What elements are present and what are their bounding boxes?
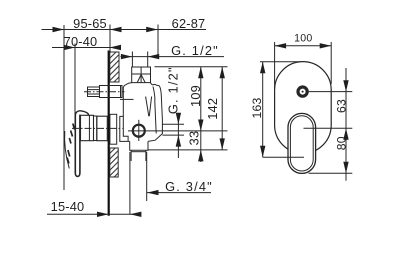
extension line wall x110 xyxy=(109,25,111,53)
body casting inner line xyxy=(153,87,156,134)
svg-text:95-65: 95-65 xyxy=(73,16,107,31)
lever swing phantom arc xyxy=(65,131,70,169)
wall slab behind xyxy=(110,114,117,144)
centerline handle xyxy=(72,127,123,129)
lever handle bar xyxy=(75,115,80,177)
bottom port tube xyxy=(131,150,146,161)
top port G1/2 xyxy=(132,67,151,83)
svg-text:15-40: 15-40 xyxy=(51,199,85,214)
label G 1/2 vertical line xyxy=(177,115,179,159)
dimension 63 arrows xyxy=(343,80,348,140)
dimension 163 arrows xyxy=(260,62,265,157)
dimension 62-87 right arrow xyxy=(146,27,158,32)
escutcheon plate front xyxy=(275,62,332,154)
dimension 15-40 line xyxy=(47,213,140,215)
label G 1/2 top leader xyxy=(121,56,225,58)
dimension 63-80 line xyxy=(345,68,347,181)
dimension 15-40 arrows xyxy=(97,212,141,217)
extension line y149.8 xyxy=(148,149,228,151)
svg-text:100: 100 xyxy=(294,33,312,45)
dimension 95-65 arrows xyxy=(53,27,122,32)
body ledge line xyxy=(120,98,134,100)
top port seat V xyxy=(137,75,145,83)
svg-text:62-87: 62-87 xyxy=(172,16,206,31)
handle body xyxy=(81,115,94,140)
wall hatch lower xyxy=(110,148,118,177)
handle lever front xyxy=(288,113,316,173)
dimension 80 bottom arrow xyxy=(343,162,348,174)
extension line lever tip x64 xyxy=(63,25,65,190)
diverter knob xyxy=(298,87,307,96)
dimension 109 line xyxy=(200,67,202,131)
label G 3/4 leader xyxy=(147,192,211,194)
extension line x158 xyxy=(157,25,159,58)
screw leader xyxy=(128,130,228,132)
leader y128 xyxy=(304,127,353,129)
svg-text:80: 80 xyxy=(334,136,348,150)
svg-text:33: 33 xyxy=(187,131,202,146)
label G 1/2 vertical arrows xyxy=(176,113,181,147)
leader lever bottom xyxy=(309,172,353,174)
lever top curl xyxy=(75,111,88,116)
dimension 163 line xyxy=(262,62,264,157)
svg-text:142: 142 xyxy=(205,98,220,120)
svg-text:G. 1/2": G. 1/2" xyxy=(166,66,181,114)
extension line x130 down xyxy=(129,152,131,215)
escutcheon side xyxy=(97,116,108,141)
top extension line right xyxy=(155,66,228,68)
body casting V mark xyxy=(146,97,152,117)
handle ring xyxy=(94,116,97,141)
union nut xyxy=(100,86,123,98)
extension line plate top xyxy=(260,61,300,63)
phantom dashes xyxy=(67,124,75,164)
wall line xyxy=(108,51,110,216)
body bracket xyxy=(119,116,129,141)
leader knob center xyxy=(307,91,352,93)
side port extension lines xyxy=(163,124,185,135)
label G 3/4 arrow xyxy=(147,190,159,195)
dimension line top row xyxy=(42,29,207,31)
wall hatch upper xyxy=(110,52,119,82)
extension line x146.6 down xyxy=(146,152,148,201)
extension lines 100 xyxy=(275,42,332,89)
svg-text:70-40: 70-40 xyxy=(64,34,98,49)
svg-text:109: 109 xyxy=(188,85,203,107)
dimension 109 arrows xyxy=(198,67,203,131)
dimension 70-40 line xyxy=(52,47,118,49)
bottom port flange xyxy=(130,141,148,150)
dimension 100 arrows xyxy=(275,43,332,48)
port edge ticks xyxy=(132,52,147,68)
fixing screw xyxy=(133,125,145,137)
bottom port inner line xyxy=(131,151,146,153)
extension line x75 xyxy=(74,44,76,141)
label G 1/2 top arrows xyxy=(121,54,159,59)
svg-text:G. 3/4": G. 3/4" xyxy=(165,179,213,194)
valve body outline xyxy=(123,83,162,142)
centerline inlet xyxy=(84,91,125,93)
dimension 70-40 arrows xyxy=(64,45,122,50)
dimension 142 arrows xyxy=(220,67,225,150)
leader y157 xyxy=(263,156,304,158)
svg-text:63: 63 xyxy=(334,99,348,113)
inlet nipple xyxy=(88,87,100,97)
dimension 100 line xyxy=(275,45,332,47)
dimension 33 lower arrow xyxy=(200,131,202,162)
dimension 142 line xyxy=(221,67,223,150)
svg-text:163: 163 xyxy=(250,98,264,119)
svg-text:G. 1/2": G. 1/2" xyxy=(171,43,219,58)
